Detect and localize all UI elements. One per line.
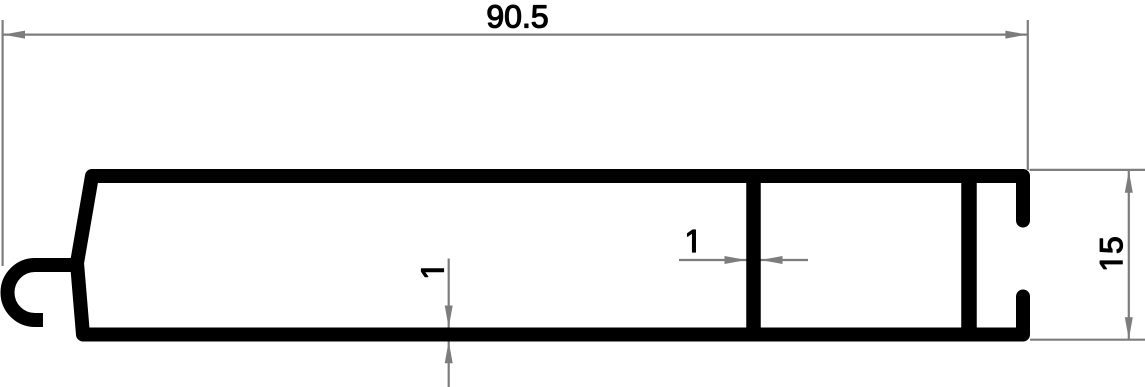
dimension 1 (web) text (688, 230, 696, 252)
dimension 1 (web) dimension line right (761, 259, 809, 261)
dimension 90.5 arrowhead right (1005, 31, 1027, 39)
dimension 15 arrowhead bottom (1125, 317, 1133, 339)
dimension 90.5 dimension line (3, 33, 1028, 35)
profile main outline (top edge, right C-channel stubs, bottom edge, slanted left edge) (77, 176, 1023, 335)
dimension 1 (bottom wall) text (rotated) (421, 269, 443, 277)
dimension 1 (bottom wall) arrowhead down (445, 306, 453, 328)
dimension 90.5 extension line right (1027, 20, 1029, 170)
dimension 1 (bottom wall) arrowhead up (445, 341, 453, 363)
dimension 15 dimension line (1128, 170, 1130, 339)
dimension 90.5 extension line left (1, 20, 3, 266)
dimension 1 (web) arrowhead left (725, 256, 747, 264)
dimension 15 extension line top (1030, 169, 1145, 171)
internal web 1 (746, 176, 761, 334)
dimension 15 extension line bottom (1030, 339, 1145, 341)
internal web 2 (961, 176, 977, 334)
left hook (kader hook) (8, 265, 81, 320)
dimension 1 (bottom wall) leader line (448, 259, 450, 387)
dimension 90.5 text (488, 5, 547, 28)
dimension 1 (web) dimension line left (679, 259, 747, 261)
dimension 15 arrowhead top (1125, 171, 1133, 193)
dimension 15 text (rotated) (1100, 238, 1122, 269)
dimension 1 (web) arrowhead right (761, 256, 783, 264)
dimension 90.5 arrowhead left (3, 31, 25, 39)
